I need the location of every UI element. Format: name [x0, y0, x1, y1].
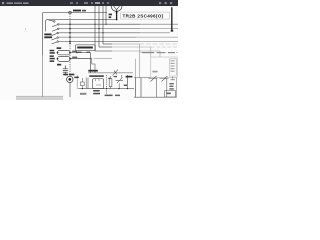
bottom center smudge row	[105, 95, 113, 97]
wire left long vertical x=43.5	[42, 13, 44, 55]
bottom left cap symbol	[81, 78, 83, 89]
label 47k	[74, 77, 79, 79]
label ALT W.W	[93, 90, 100, 92]
bottom right small box	[165, 90, 176, 97]
wire rail y=41.4	[59, 40, 140, 42]
small comp below loops	[63, 66, 68, 76]
vertical bus x=99	[98, 6, 100, 47]
dark right vertical segment	[171, 7, 173, 30]
bottom center vert x=127	[126, 75, 128, 89]
wire vert x=91.8 down	[92, 59, 95, 73]
node circle at (70,12.6)	[69, 11, 72, 14]
scan speck	[25, 28, 26, 31]
wire rail y=24.2	[59, 23, 140, 25]
wire stadium loop lower	[58, 56, 71, 61]
bottom area vert x=135.6	[135, 59, 137, 78]
bottom center IC box	[93, 79, 104, 89]
junction dot transistor	[116, 12, 118, 14]
label in small box bottom right	[166, 93, 171, 95]
wire bus x=70 below pot	[69, 83, 71, 98]
browser toolbar	[0, 0, 178, 6]
diode slash on rail	[113, 70, 119, 76]
bottom center diode	[116, 75, 124, 89]
label AW LAWN	[89, 75, 104, 77]
faint right text row y=52.6	[140, 52, 178, 54]
switch contact circles	[54, 21, 56, 23]
label SWL 4.5M	[77, 47, 93, 49]
bottom right diode 1	[149, 76, 158, 97]
smudge below rail	[80, 93, 86, 95]
svg-text:TR2B 2SC496(O): TR2B 2SC496(O)	[123, 14, 164, 19]
wire loop rail y=52.5	[70, 52, 91, 54]
label SW-1 MODE	[44, 34, 51, 36]
bottom left dashed vert x=77	[76, 76, 78, 89]
label inner tall box rows	[170, 60, 174, 61]
wire corner y=47 to right	[99, 46, 112, 48]
small symbol right	[171, 77, 176, 80]
vertical bus x=106	[105, 6, 107, 24]
label 24 F	[109, 14, 112, 16]
bottom right rail y=97.2	[134, 96, 177, 98]
toolbar right icons	[159, 2, 161, 4]
label bottom right stack	[169, 83, 173, 84]
right block box	[151, 57, 177, 77]
bottom center comp stack x=110	[110, 76, 112, 89]
node bus x=70 dashed upper	[69, 14, 71, 21]
wire switch frame vertical	[45, 22, 47, 32]
junction dots rails	[94, 24, 95, 25]
SW box top-right	[76, 45, 96, 51]
wire loop rail y=58.7	[70, 58, 92, 60]
bottom rail y=77.6	[134, 77, 151, 79]
label R73 1k	[73, 10, 81, 12]
label 1N	[57, 64, 61, 66]
wire vert x=90.6 down	[90, 53, 92, 73]
wire bottom rail y=72.9	[88, 72, 133, 74]
short vert x=87	[86, 78, 88, 89]
IC box interior ticks	[96, 79, 102, 85]
wire corner y=51 to right	[95, 50, 112, 52]
switch arm diagonals	[48, 20, 58, 44]
junction dots loops	[57, 52, 59, 54]
wire stadium loop upper	[58, 50, 71, 55]
wire top box horizontal y=12.5	[43, 12, 107, 14]
vertical bus x=95	[94, 6, 96, 51]
bottom area vert x=141	[140, 78, 142, 98]
wire bus x=70 solid mid	[69, 21, 71, 43]
wire rail y=19.6	[46, 20, 117, 22]
paper background	[0, 0, 178, 100]
wire rail y=37	[59, 36, 136, 38]
transistor lead	[116, 11, 118, 20]
bottom page-edge gray band	[16, 96, 63, 100]
label L.W	[126, 76, 133, 78]
label SW box leads	[78, 52, 82, 53]
label T4	[57, 47, 62, 49]
bottom center dashed vert x=106.6	[106, 75, 108, 97]
label value stack left of loops	[50, 50, 55, 52]
bottom right vert x=176.6	[176, 78, 178, 98]
right block inner tall box	[170, 59, 177, 76]
vertical bus x=103	[102, 6, 104, 44]
pot center dot	[68, 78, 71, 81]
faint box around TR2B label	[121, 12, 170, 19]
pot body circle	[67, 76, 73, 82]
wire lower bend y=58.6	[94, 58, 113, 60]
label 1.5k lower	[72, 57, 77, 58]
wire rail y=28.5	[59, 28, 140, 30]
wire corner y=44 to right	[103, 43, 112, 45]
wire bus x=70 dashed lower	[69, 43, 71, 76]
toolbar center icons	[70, 2, 73, 4]
label 1M	[124, 85, 128, 86]
junction dots on bus x=70	[69, 23, 71, 25]
wire rail y=32.7	[59, 32, 140, 34]
bottom center rail y=88.6	[78, 88, 134, 90]
bottom right diode 2	[160, 76, 169, 97]
label bottom center values	[108, 78, 110, 79]
label 1.5k upper	[72, 51, 77, 52]
small comp box x=82	[80, 82, 84, 86]
label AN W	[88, 70, 98, 72]
blob end of dark vertical	[171, 30, 173, 32]
faint right text row fragments	[142, 52, 154, 53]
toolbar tab title text	[2, 2, 4, 4]
transistor TR2B circle	[111, 6, 122, 11]
junction dots rail y=88.6	[82, 88, 83, 89]
label pot value	[63, 74, 68, 76]
label TA mid	[152, 71, 157, 73]
